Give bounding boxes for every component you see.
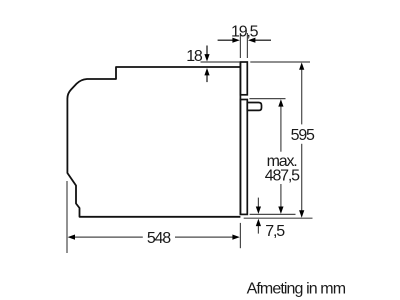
extension line 19,5 left xyxy=(239,33,241,58)
extension line 548 left xyxy=(66,181,68,253)
dimension 18 up arrow xyxy=(206,75,208,82)
svg-text:7,5: 7,5 xyxy=(265,223,285,240)
svg-text:487,5: 487,5 xyxy=(265,168,300,185)
dimension 19,5 right arrow xyxy=(255,39,271,41)
front frame left edge xyxy=(239,62,241,214)
extension line 18 top level xyxy=(201,61,240,63)
extension line max top xyxy=(249,98,285,100)
svg-text:19,5: 19,5 xyxy=(231,23,259,40)
oven body outline xyxy=(67,67,240,217)
svg-text:548: 548 xyxy=(147,230,171,247)
front frame control panel xyxy=(240,62,247,95)
dimension line 548 xyxy=(74,236,143,238)
dimension 18 down arrow xyxy=(206,46,208,56)
dimension 19,5 left arrow xyxy=(218,39,233,41)
dimension line max 487,5 xyxy=(280,105,282,152)
extension line frame bottom xyxy=(250,213,296,215)
oven door front xyxy=(240,100,247,215)
extension line 548 right xyxy=(239,223,241,248)
svg-text:18: 18 xyxy=(186,48,203,65)
dimension 7,5 up arrow xyxy=(257,226,259,234)
extension line 595 top xyxy=(250,61,310,63)
svg-text:Afmeting in mm: Afmeting in mm xyxy=(247,281,346,298)
dimension line 595 xyxy=(301,69,303,125)
svg-text:595: 595 xyxy=(291,127,315,144)
dimension 7,5 down arrow xyxy=(257,198,259,208)
extension line appliance bottom xyxy=(244,217,313,219)
extension line 19,5 right xyxy=(246,33,248,58)
door handle xyxy=(247,103,261,111)
